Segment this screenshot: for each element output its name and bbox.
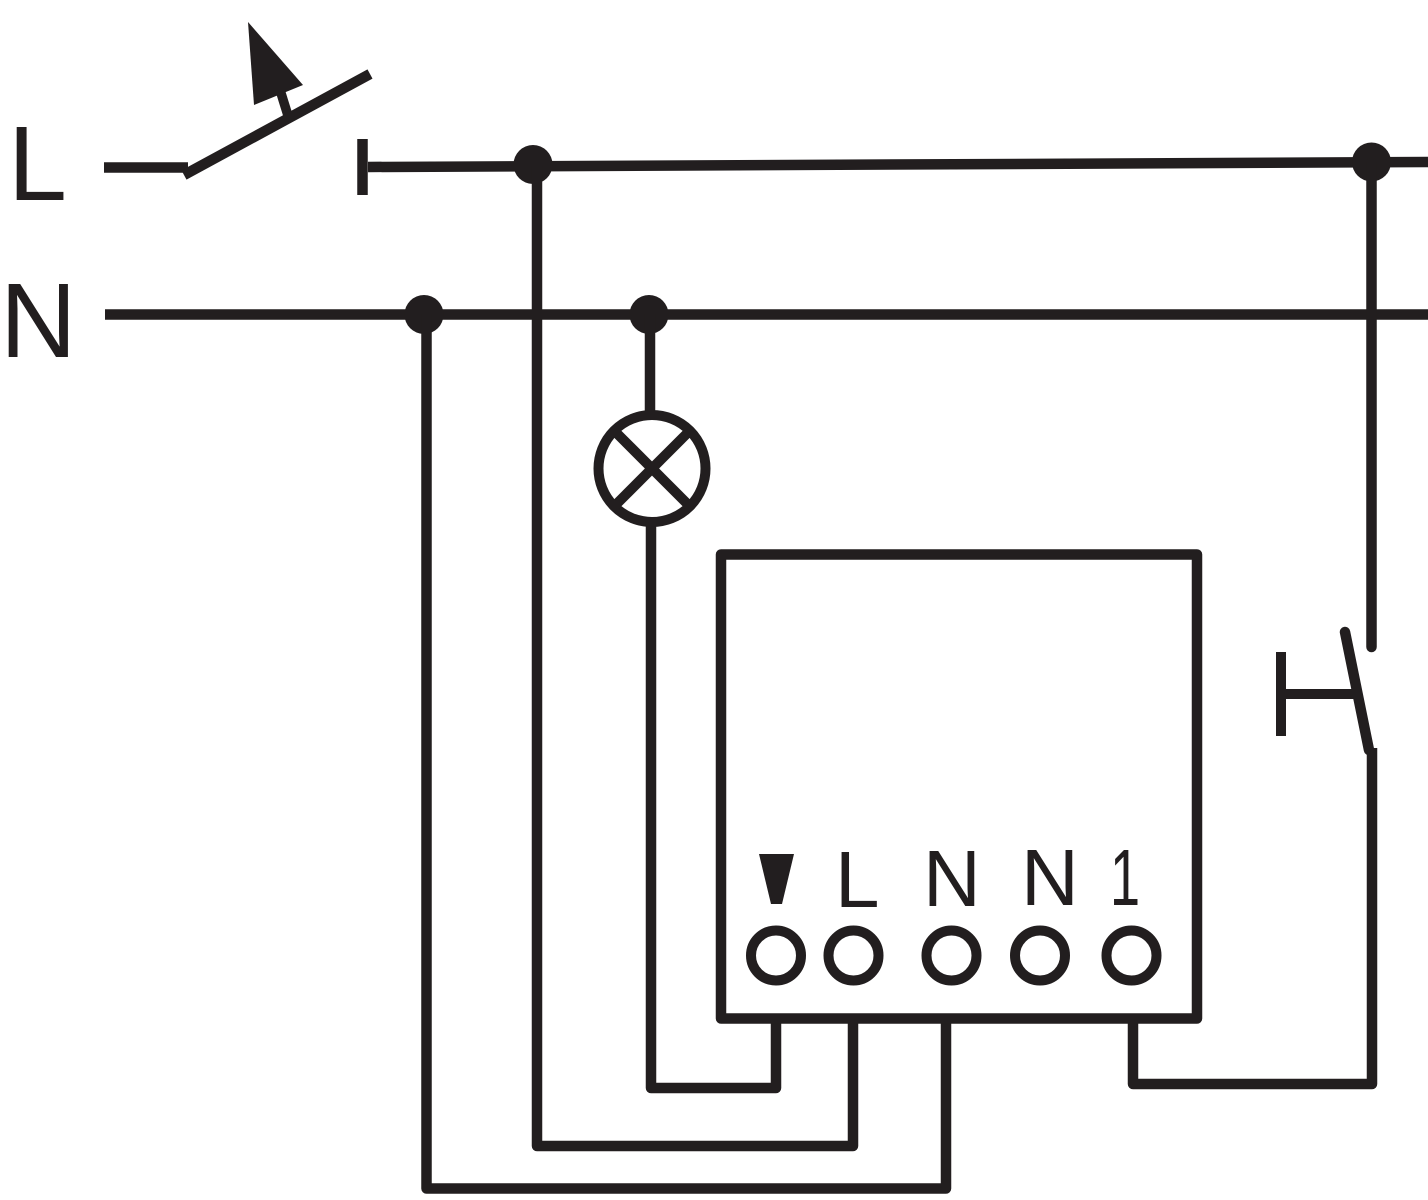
node junction L-a [514,145,553,184]
switch S1 actuation arrow [248,22,303,122]
terminal pin arrow [751,931,801,981]
svg-text:L: L [8,105,67,223]
wire N bus [105,309,1428,320]
svg-text:N: N [0,262,77,380]
wire L bus [368,162,1428,167]
lamp E1 [599,415,706,522]
node junction N-b [630,295,669,334]
terminal pin N input [927,931,977,981]
terminal pin 1 [1107,931,1157,981]
switch S1 fixed contact [357,139,368,195]
svg-text:1: 1 [1110,834,1140,923]
terminal marker arrow [759,854,794,904]
wire push-button to terminal 1 [1133,748,1372,1084]
svg-text:N: N [923,834,981,923]
svg-text:L: L [835,835,880,924]
push-button S2 lever [1345,632,1369,750]
wire N junction to lamp [645,314,656,412]
terminal pin L [829,931,879,981]
wire L feed [104,162,188,173]
electronic insert box U1 [721,555,1197,1019]
wire from L junction to terminal L [537,166,853,1146]
switch S1 lever [184,74,370,175]
wire L junction down to push-button [1366,163,1377,647]
svg-text:N: N [1021,833,1079,922]
terminal pin N output [1015,931,1065,981]
wire lamp to terminal arrow [651,520,776,1088]
push-button S2 actuator [1281,657,1351,731]
wire from N junction to terminal N [427,314,947,1189]
node junction N-a [405,295,444,334]
node junction L-b [1352,143,1391,182]
